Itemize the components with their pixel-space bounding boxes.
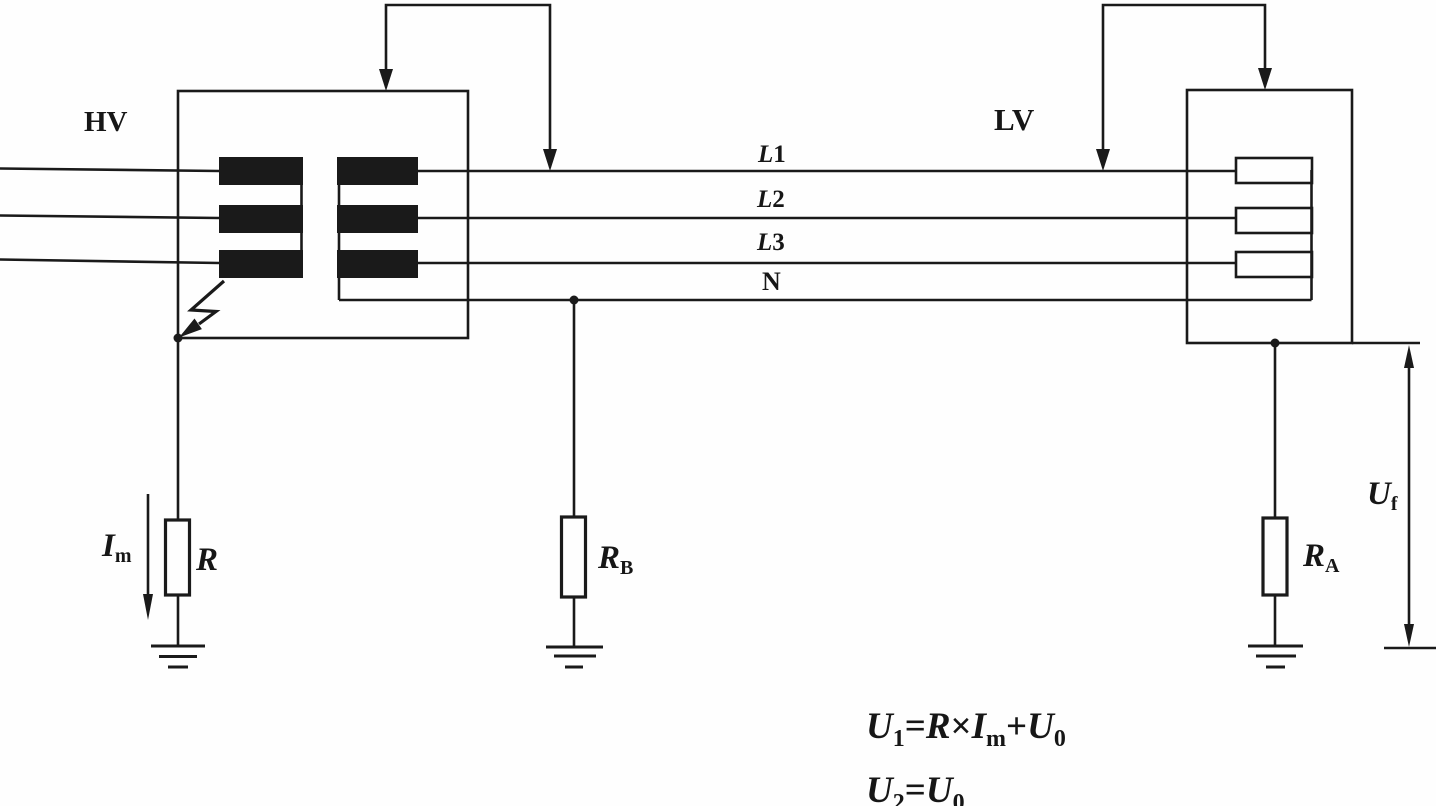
HV winding bar 1 bbox=[219, 157, 303, 185]
arrowhead onto wire L1 (LV side) bbox=[1096, 149, 1110, 171]
svg-text:U2=U0: U2=U0 bbox=[866, 770, 965, 806]
svg-text:HV: HV bbox=[84, 106, 128, 138]
fault zigzag arrow (winding breakdown to frame) bbox=[191, 281, 224, 324]
HV winding bar 2 bbox=[219, 205, 303, 233]
arrowhead onto transformer box top bbox=[379, 69, 393, 91]
arrowhead onto load box top bbox=[1258, 68, 1272, 90]
load star bus wire bbox=[1310, 170, 1313, 300]
resistor RB bbox=[562, 517, 586, 597]
earth reference line (bottom right) bbox=[1384, 647, 1436, 650]
svg-text:R: R bbox=[195, 542, 218, 578]
wire L3 incoming (HV side) bbox=[0, 260, 219, 264]
node N tap junction bbox=[570, 296, 579, 305]
svg-text:N: N bbox=[762, 267, 781, 296]
wire L1 (LV distribution line) bbox=[418, 170, 1236, 173]
wire load box bottom extension bbox=[1352, 342, 1420, 345]
resistor R bbox=[166, 520, 190, 595]
wire resistor R to ground bbox=[177, 595, 180, 646]
current arrow Im bbox=[147, 494, 150, 596]
LV winding bar 2 bbox=[337, 205, 418, 233]
wire L3 (LV distribution line) bbox=[418, 262, 1236, 265]
dimension arrow Uf bbox=[1408, 366, 1411, 626]
wire L2 incoming (HV side) bbox=[0, 216, 219, 219]
wire resistor RB to ground bbox=[573, 597, 576, 647]
wire L2 (LV distribution line) bbox=[418, 217, 1236, 220]
node fault point (junction dot) bbox=[174, 334, 183, 343]
svg-text:LV: LV bbox=[994, 102, 1035, 137]
LV winding bar 1 bbox=[337, 157, 418, 185]
ground (below R) bbox=[151, 645, 205, 648]
node A tap junction on load box bottom bbox=[1271, 339, 1280, 348]
HV star-point bus wire bbox=[300, 171, 303, 264]
wire N (neutral line) bbox=[339, 299, 1312, 302]
load element L1 bbox=[1236, 158, 1312, 183]
resistor RA bbox=[1263, 518, 1287, 595]
fault arrowhead bbox=[179, 319, 202, 338]
ground (below RA) bbox=[1248, 645, 1303, 648]
svg-text:L3: L3 bbox=[756, 229, 785, 256]
HV winding bar 3 bbox=[219, 250, 303, 278]
load box (LV installation) bbox=[1187, 90, 1352, 343]
wire load box to resistor RA bbox=[1274, 343, 1277, 518]
ground (below RB) bbox=[546, 646, 603, 649]
wire L1 incoming (HV side) bbox=[0, 169, 219, 172]
tap arrow loop over transformer (HV) bbox=[386, 5, 550, 149]
svg-text:L1: L1 bbox=[757, 141, 786, 168]
wire fault point to resistor R bbox=[177, 338, 180, 520]
LV star-point bus wire to N bbox=[338, 171, 341, 300]
tap arrow loop over load box (LV) bbox=[1103, 5, 1265, 149]
transformer T1 box (HV/LV transformer) bbox=[178, 91, 468, 338]
svg-text:L2: L2 bbox=[756, 186, 785, 213]
wire resistor RA to ground bbox=[1274, 595, 1277, 646]
wire N to resistor RB bbox=[573, 300, 576, 517]
load element L3 bbox=[1236, 252, 1312, 277]
arrowhead onto wire L1 bbox=[543, 149, 557, 171]
LV winding bar 3 bbox=[337, 250, 418, 278]
load element L2 bbox=[1236, 208, 1312, 233]
